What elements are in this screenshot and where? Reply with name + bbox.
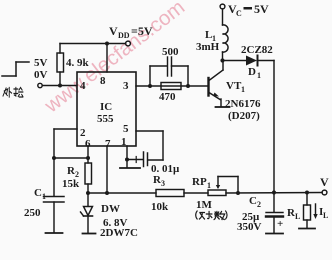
svg-text:=5V: =5V	[131, 24, 153, 38]
wire bottom rail mid	[184, 192, 208, 194]
label + polarity	[277, 218, 283, 230]
svg-text:15k: 15k	[62, 178, 80, 190]
svg-text:1: 1	[42, 192, 46, 201]
terminal VDD	[126, 41, 131, 46]
svg-text:2N6176: 2N6176	[225, 98, 261, 110]
junction RL / bottom rail	[305, 191, 309, 195]
resistor R3 10k	[156, 190, 184, 197]
label 4.9k	[66, 57, 90, 69]
svg-text:C: C	[34, 187, 42, 199]
label 1M	[196, 199, 213, 211]
label 350V	[237, 221, 262, 233]
transistor VT1 (NPN 2N6176)	[209, 60, 224, 107]
label VC=5V	[228, 2, 269, 18]
junction pin3 line left	[148, 84, 152, 88]
zener diode DW 2DW7C	[81, 193, 93, 233]
junction top rail / pin 8	[105, 42, 109, 46]
IC U1 555 timer body	[77, 72, 136, 146]
label C2	[249, 195, 261, 209]
capacitor C2 25u 350V electrolytic	[266, 193, 283, 234]
svg-text:3: 3	[123, 80, 129, 92]
svg-text:4. 9k: 4. 9k	[66, 57, 90, 69]
label 0V	[34, 69, 48, 81]
ground (emitter of VT1)	[216, 106, 230, 108]
label 外控 (external control, drawn glyphs)	[3, 88, 23, 98]
label (对数) logarithmic taper, drawn glyphs	[196, 211, 227, 220]
svg-text:(D207): (D207)	[228, 110, 260, 122]
svg-text:VT: VT	[226, 80, 242, 92]
junction pin6 / R2	[86, 156, 90, 160]
svg-text:1: 1	[207, 181, 211, 190]
wire top rail (VDD bus)	[60, 43, 126, 45]
label 15k	[62, 178, 80, 190]
svg-text:8: 8	[100, 75, 106, 87]
pin number 3	[123, 80, 129, 92]
label 0.01u	[151, 163, 180, 175]
label C1	[34, 187, 46, 201]
junction pin7 / bottom rail	[105, 191, 109, 195]
label 470	[159, 91, 176, 103]
wire pin 8	[106, 44, 108, 73]
svg-text:+: +	[277, 218, 283, 230]
input step waveform icon	[2, 62, 29, 76]
junction pin1 / 0.01u	[125, 158, 129, 162]
label 10k	[151, 201, 169, 213]
label (D207)	[228, 110, 260, 122]
wire collector node to diode	[223, 60, 247, 62]
terminal input (外控)	[38, 83, 42, 87]
wire bottom rail right	[226, 192, 322, 195]
pin number 7	[105, 138, 111, 150]
svg-text:IC: IC	[100, 101, 112, 113]
label IC 555	[97, 101, 114, 125]
wire input to pin 4	[43, 85, 78, 87]
diode D1 2CZ82	[246, 56, 258, 66]
wire pin 6	[87, 146, 89, 158]
wire pin 1	[126, 146, 128, 160]
svg-text:0V: 0V	[34, 69, 48, 81]
ground C1	[46, 232, 63, 234]
label RL	[287, 207, 300, 221]
label 6.8V	[103, 217, 128, 229]
ground DW	[83, 233, 96, 235]
svg-text:1: 1	[121, 136, 127, 148]
label VT1	[226, 80, 245, 94]
svg-text:470: 470	[159, 91, 176, 103]
junction collector node	[220, 58, 224, 62]
svg-text:2: 2	[257, 200, 261, 209]
capacitor 500 (speed-up, parallel with 470)	[150, 57, 188, 86]
label 5V	[34, 57, 48, 69]
svg-text:1M: 1M	[196, 199, 213, 211]
junction C2 / right rail / bottom rail	[272, 190, 276, 194]
wire pin 3 to base	[136, 85, 208, 87]
wire pin1 to ground	[126, 160, 128, 168]
svg-text:3mH: 3mH	[196, 41, 220, 53]
terminal VC	[220, 4, 225, 9]
wire pin 7	[106, 146, 108, 193]
svg-text:5V: 5V	[254, 2, 269, 16]
capacitor C 0.01u	[127, 152, 163, 167]
junction pin3 line right	[186, 84, 190, 88]
svg-text:1: 1	[257, 71, 261, 80]
svg-text:L: L	[295, 212, 300, 221]
svg-text:555: 555	[97, 113, 114, 125]
svg-text:10k: 10k	[151, 201, 169, 213]
resistor R2 15k	[85, 158, 92, 193]
svg-text:V: V	[320, 175, 329, 189]
pin number 8	[100, 75, 106, 87]
label V output	[320, 175, 329, 189]
svg-text:2DW7C: 2DW7C	[100, 227, 138, 239]
svg-text:D: D	[248, 66, 256, 78]
label RP1	[192, 176, 211, 190]
svg-text:DD: DD	[118, 31, 130, 40]
junction node pin2/pin6/C1	[52, 156, 56, 160]
svg-text:C: C	[236, 9, 242, 18]
svg-text:3: 3	[161, 179, 165, 188]
svg-text:250: 250	[24, 207, 41, 219]
svg-text:DW: DW	[101, 203, 120, 215]
wire pin 2	[54, 129, 77, 158]
label L1	[205, 29, 216, 43]
pin number 2	[80, 127, 86, 139]
terminal V output	[322, 190, 327, 195]
label 2DW7C	[100, 227, 138, 239]
junction input line / 4.9k	[58, 84, 62, 88]
label 3mH	[196, 41, 220, 53]
pin number 6	[85, 138, 91, 150]
label 2N6176	[225, 98, 261, 110]
svg-text:V: V	[109, 24, 118, 38]
label D1	[248, 66, 261, 80]
svg-text:7: 7	[105, 138, 111, 150]
resistor 470	[161, 83, 181, 90]
label 25u	[242, 211, 260, 223]
label DW	[101, 203, 120, 215]
svg-text:4: 4	[80, 80, 86, 92]
label 250	[24, 207, 41, 219]
svg-text:2CZ82: 2CZ82	[241, 44, 273, 56]
watermark www.elecfans.com	[41, 0, 188, 116]
capacitor C1	[44, 158, 65, 233]
potentiometer RP1 1M	[208, 177, 238, 196]
svg-text:C: C	[249, 195, 257, 207]
label R3	[153, 174, 165, 188]
svg-text:500: 500	[162, 46, 179, 58]
wire bottom rail left	[88, 192, 156, 194]
junction R2 / bottom rail / DW	[86, 191, 90, 195]
pin number 1	[121, 136, 127, 148]
wire node to pin 6	[54, 157, 88, 159]
ground pin 1	[120, 167, 140, 169]
ground C2	[266, 233, 283, 235]
wire diode to right rail	[258, 60, 274, 62]
wire right rail (output side)	[273, 61, 275, 193]
svg-text:5V: 5V	[34, 57, 48, 69]
wire pin 5	[136, 131, 163, 160]
svg-text:L: L	[323, 211, 328, 220]
svg-text:1: 1	[241, 85, 245, 94]
svg-text:350V: 350V	[237, 221, 262, 233]
resistor R 4.9k	[57, 44, 64, 86]
resistor RL	[304, 193, 311, 229]
label VDD=5V	[109, 24, 153, 40]
label R2	[67, 165, 79, 179]
label IL	[319, 206, 328, 220]
junction RP1 wiper loop / rail	[236, 191, 240, 195]
svg-text:5: 5	[123, 123, 129, 135]
current arrow IL	[313, 204, 317, 219]
label 500	[162, 46, 179, 58]
inductor L1 3mH	[223, 9, 229, 61]
ground RL	[299, 228, 315, 230]
pin number 5	[123, 123, 129, 135]
label 2CZ82	[241, 44, 273, 56]
svg-text:RP: RP	[192, 176, 207, 188]
pin number 4	[80, 80, 86, 92]
